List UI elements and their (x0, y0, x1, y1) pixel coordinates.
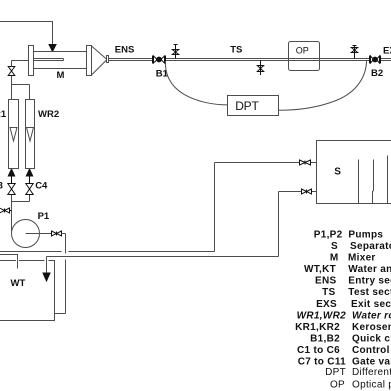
wire return line L1 (0, 251, 215, 253)
wire separator upper outlet (215, 162, 317, 164)
svg-text:Water rotameters: Water rotameters (352, 310, 391, 321)
arrow into mixer top (49, 45, 56, 52)
svg-text:S: S (334, 166, 341, 177)
drain valve C9 below pipe (257, 61, 263, 76)
arrow into WR1 bottom (8, 169, 14, 176)
svg-text:DPT: DPT (235, 99, 259, 113)
svg-text:C1 to C6: C1 to C6 (297, 345, 340, 356)
vent valve C8 above pipe near B2 (351, 46, 357, 59)
control valve C1 below mixer (8, 67, 15, 76)
svg-text:M: M (330, 253, 339, 264)
svg-text:EXS: EXS (383, 46, 391, 57)
wire downcomer from lower outlet (278, 192, 280, 257)
wire pump discharge elbow (55, 234, 66, 314)
wire impulse line B1 to DPT (165, 61, 227, 105)
gate valve C10 pump discharge (52, 231, 62, 237)
wire rotameter top manifold (12, 85, 30, 100)
svg-text:S: S (331, 241, 338, 252)
separator baffle 3 (387, 156, 389, 204)
quick closing valve B1 (153, 56, 166, 64)
ENS cone (92, 46, 108, 75)
WR1 float (10, 128, 17, 142)
arrow into WR2 bottom (26, 169, 32, 176)
wire return line L2 (47, 256, 279, 258)
wire riser to mixer valve (11, 76, 13, 85)
svg-text:C4: C4 (35, 181, 48, 192)
svg-text:Gate valves: Gate valves (352, 356, 391, 367)
separator baffle 1 (358, 160, 360, 204)
svg-text:DPT: DPT (325, 367, 346, 378)
cone exit tick (107, 56, 109, 63)
separator baffle 2 (373, 160, 374, 204)
gate valve C6 (302, 189, 312, 195)
svg-text:Control valves: Control valves (352, 345, 391, 356)
svg-text:C3: C3 (0, 181, 3, 192)
gate valve C11 on left (0, 208, 12, 214)
control valve C3 (8, 177, 15, 195)
quick closing valve B2 (370, 56, 381, 64)
wire kerosene feed top line (0, 22, 53, 45)
wire exit pipe after B2 (381, 59, 391, 61)
wire test pipe ENS to B1 (double line) (109, 59, 153, 61)
svg-text:P1: P1 (38, 211, 50, 222)
pump P1 (12, 220, 40, 248)
svg-text:WT,KT: WT,KT (304, 264, 336, 275)
svg-text:Exit section: Exit section (351, 299, 391, 310)
svg-text:EXS: EXS (316, 299, 337, 310)
svg-text:WT: WT (11, 278, 26, 289)
svg-text:Water and kerosene tanks: Water and kerosene tanks (348, 264, 391, 275)
svg-text:M: M (57, 70, 65, 81)
wire impulse line B2 to DPT (279, 61, 367, 110)
wire test pipe B1 to B2 (166, 59, 370, 61)
wire C3/C4 junction (12, 195, 30, 202)
svg-text:KR1,KR2: KR1,KR2 (295, 322, 340, 333)
svg-text:B2: B2 (371, 68, 383, 79)
svg-text:WR1: WR1 (0, 109, 7, 120)
svg-text:Kerosene rotameters: Kerosene rotameters (352, 322, 391, 333)
svg-text:TS: TS (230, 44, 242, 55)
svg-text:WR1,WR2: WR1,WR2 (297, 310, 346, 321)
svg-text:Pumps: Pumps (348, 230, 383, 241)
svg-text:OP: OP (330, 380, 345, 391)
vent valve C7 above pipe near B1 (172, 45, 178, 59)
wire arrow drop into WT (46, 257, 48, 274)
svg-text:Optical probe: Optical probe (352, 380, 391, 391)
gate valve C5 (300, 160, 311, 166)
water tank WT (0, 261, 55, 321)
control valve C4 (26, 177, 33, 195)
svg-text:Entry section: Entry section (348, 276, 391, 287)
mixer M right flange (87, 46, 92, 76)
WR2 float (27, 128, 34, 142)
svg-text:Separator: Separator (350, 241, 391, 252)
svg-text:C7 to C11: C7 to C11 (298, 356, 346, 367)
wire pipe through OP box (289, 59, 320, 61)
gap in tank top edge at stub and arrow (16, 260, 49, 262)
mixer M left flange (29, 46, 34, 76)
svg-text:Differential pressure transduc: Differential pressure transducer (352, 367, 391, 378)
wire downcomer from upper outlet (214, 163, 216, 252)
rotameter WR1 tube (9, 100, 19, 169)
svg-text:B1,B2: B1,B2 (310, 333, 340, 344)
OP box (289, 42, 320, 71)
separator S box (317, 141, 391, 204)
wire pump suction vertical (11, 195, 13, 232)
DPT box (228, 96, 279, 116)
wire stub into tank (17, 260, 19, 269)
svg-text:OP: OP (296, 45, 309, 55)
wire line L0 with stub into tank (0, 255, 18, 269)
svg-text:ENS: ENS (315, 276, 336, 287)
svg-text:Mixer: Mixer (348, 253, 376, 264)
wire separator lower outlet (279, 191, 317, 193)
mixer M body (34, 52, 87, 69)
mixer injector tube (34, 59, 64, 61)
rotameter WR2 tube (26, 100, 35, 169)
svg-text:P1,P2: P1,P2 (314, 230, 343, 241)
legend (295, 230, 391, 391)
arrow into WT (43, 273, 50, 281)
wire valve to mixer pipe (12, 61, 29, 67)
svg-text:TS: TS (322, 287, 335, 298)
svg-text:Quick closing valves: Quick closing valves (352, 333, 391, 344)
svg-text:ENS: ENS (115, 44, 135, 55)
svg-text:WR2: WR2 (38, 109, 59, 120)
svg-text:Test section: Test section (348, 287, 391, 298)
